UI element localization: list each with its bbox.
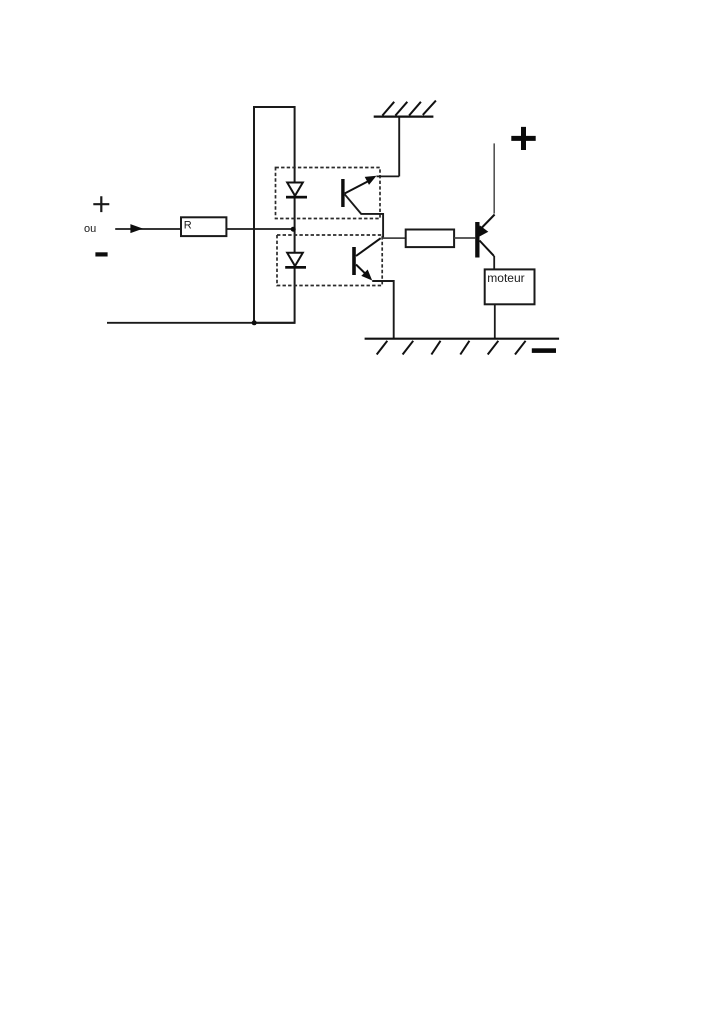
svg-text:moteur: moteur <box>487 271 524 285</box>
svg-text:ou: ou <box>84 223 96 235</box>
svg-text:R: R <box>184 220 192 232</box>
